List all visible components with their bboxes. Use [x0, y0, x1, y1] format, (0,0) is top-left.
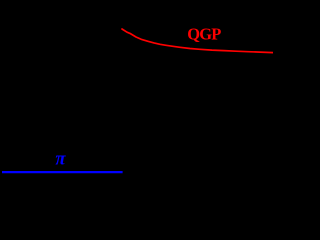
- svg-text:QGP: QGP: [187, 24, 221, 43]
- QGP curve: [122, 29, 273, 53]
- svg-text:π: π: [55, 150, 66, 170]
- pion line: [2, 171, 123, 173]
